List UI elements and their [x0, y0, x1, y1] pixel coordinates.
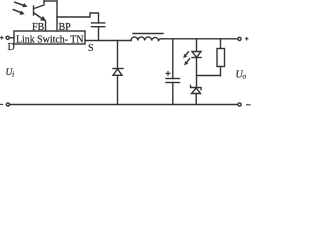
resistor R1 body	[217, 49, 225, 67]
D pin wire	[10, 37, 15, 39]
bypass cap lead to S rail	[98, 27, 100, 41]
bypass capacitor C1 plates	[92, 23, 105, 27]
optocoupler LED branch wire (top)	[196, 39, 198, 52]
bottom return rail	[10, 104, 238, 106]
label + (output cap polarity)	[165, 71, 170, 76]
label Uo output voltage	[236, 69, 247, 80]
FB pin lead	[45, 21, 47, 31]
zener diode VZ	[191, 85, 202, 93]
optocoupler LED	[192, 52, 201, 58]
freewheeling diode D1 branch wire (top)	[117, 41, 119, 69]
IC U1 box	[14, 31, 85, 44]
svg-text:FB: FB	[32, 22, 45, 33]
label BP pin	[59, 22, 72, 33]
resistor R1 bottom lead	[220, 67, 222, 76]
svg-text:Link Switch- TN: Link Switch- TN	[16, 34, 84, 45]
label + (output terminal)	[245, 37, 249, 41]
svg-text:Ui: Ui	[6, 68, 15, 78]
output - terminal	[238, 103, 241, 106]
output capacitor C2 bottom lead	[172, 83, 174, 105]
label D pin	[8, 42, 15, 53]
BP trace to bypass cap	[57, 13, 99, 23]
input - terminal	[6, 103, 9, 106]
svg-text:D: D	[8, 42, 15, 53]
freewheeling diode D1 lead to bottom rail	[117, 75, 119, 104]
phototransistor collector lead	[34, 1, 44, 9]
output capacitor C2 top lead	[172, 39, 174, 79]
resistor R1 top lead	[220, 39, 222, 49]
light arrow into phototransistor (upper)	[15, 2, 28, 7]
label - (input bottom)	[0, 103, 3, 105]
wire LED to zener	[196, 58, 198, 88]
junction wire resistor bottom to zener top	[197, 75, 221, 77]
output + terminal	[238, 37, 241, 40]
inductor L1 winding	[131, 37, 159, 41]
S pin rail to inductor	[85, 40, 131, 42]
label S pin	[88, 43, 94, 54]
LED light arrow (upper)	[183, 52, 188, 59]
inductor L1 core bar	[133, 33, 163, 35]
LED light arrow (lower)	[184, 59, 189, 66]
zener lead to bottom rail	[195, 94, 197, 105]
freewheeling diode D1	[113, 69, 123, 76]
input + terminal	[6, 36, 9, 39]
output rail after inductor	[159, 39, 238, 41]
IC name LinkSwitch-TN	[16, 34, 84, 45]
output capacitor C2 plates	[166, 79, 180, 83]
BP pin lead / collector drop	[56, 1, 58, 31]
label FB pin	[32, 22, 45, 33]
svg-text:Uo: Uo	[236, 69, 247, 80]
phototransistor emitter with arrow	[34, 13, 46, 21]
light arrow into phototransistor (lower)	[13, 10, 24, 15]
wire collector to BP	[44, 0, 57, 2]
svg-text:BP: BP	[59, 22, 72, 33]
label Ui input voltage	[6, 68, 15, 78]
phototransistor base bar	[33, 6, 35, 15]
label + (input)	[0, 36, 4, 40]
svg-text:S: S	[88, 43, 94, 54]
label - (output bottom)	[246, 104, 251, 106]
